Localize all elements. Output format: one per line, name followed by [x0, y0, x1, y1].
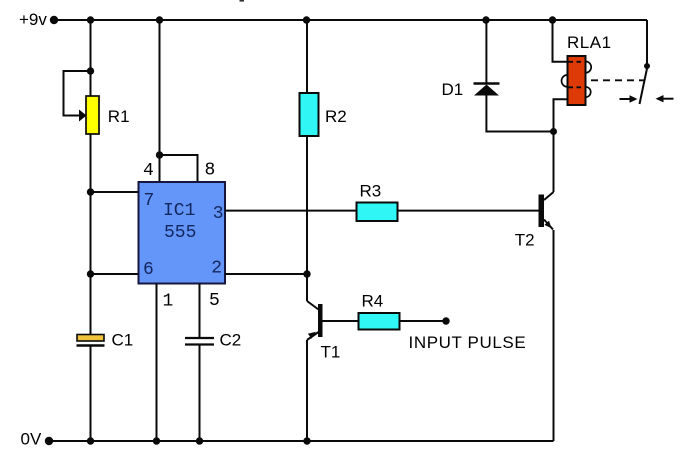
label R4 [362, 292, 384, 311]
wire relay coil bottom lead [554, 99, 568, 131]
svg-text:6: 6 [143, 260, 154, 280]
svg-text:C2: C2 [220, 330, 242, 349]
wiper arrow R1 [79, 110, 87, 122]
label R2 [325, 107, 347, 126]
relay contact arm [640, 69, 648, 105]
svg-text:IC1: IC1 [163, 201, 195, 221]
wire T2 collector drop [553, 132, 555, 193]
wire R4 to input terminal [400, 320, 447, 322]
pin 8 label [205, 160, 216, 180]
junction pin4/pin8 bracket [156, 151, 163, 158]
svg-text:3: 3 [213, 204, 224, 224]
wire pin3 to R3 [225, 210, 357, 212]
wire pin8 bracket [160, 155, 198, 182]
junction 0V rail pin1 [153, 437, 160, 444]
pin 5 label [209, 291, 220, 311]
wire pin6 to rail [91, 273, 139, 275]
svg-text:R4: R4 [362, 292, 384, 311]
wire pin2 to T1 branch [225, 273, 307, 275]
wire R2 branch upper [306, 20, 308, 93]
resistor R2 [300, 93, 319, 136]
label D1 [442, 80, 464, 99]
resistor R4 [359, 313, 400, 330]
junction top rail pin4 branch [156, 16, 163, 23]
junction D1 / relay / T2 collector [550, 128, 557, 135]
junction pin2 / R2 / T1 collector [303, 270, 310, 277]
svg-text:1: 1 [163, 292, 174, 312]
wire T2 emitter to 0V rail [553, 230, 555, 441]
wire right drop to relay contact pivot [646, 20, 648, 64]
svg-text:4: 4 [143, 161, 154, 181]
label C1 [112, 330, 134, 349]
wire pin4 branch vertical [159, 20, 161, 182]
wire 0V bottom rail [49, 440, 554, 442]
wire pin1 to 0V [156, 284, 158, 442]
wire R1 branch vertical [90, 20, 92, 335]
label T1 [321, 342, 341, 361]
dashed mechanical link relay to contact [591, 79, 644, 81]
svg-text:RLA1: RLA1 [567, 33, 612, 52]
resistor R3 [357, 203, 398, 222]
input pulse terminal dot [442, 317, 449, 324]
junction top rail R2 branch [303, 16, 310, 23]
resistor R1 [86, 96, 99, 134]
svg-text:8: 8 [205, 160, 216, 180]
pin 6 label [143, 260, 154, 280]
svg-text:0V: 0V [21, 430, 42, 449]
label IC1 [163, 201, 195, 221]
svg-text:R1: R1 [108, 107, 130, 126]
wire pin5 to C2 [199, 284, 201, 338]
svg-text:INPUT PULSE: INPUT PULSE [409, 333, 527, 352]
label C2 [220, 330, 242, 349]
label T2 [515, 231, 535, 250]
op-amp U1: IC1 555 timer body [139, 182, 226, 284]
diode D1 [474, 84, 500, 96]
junction 0V rail C2 [196, 437, 203, 444]
contact terminal arrow right [656, 95, 674, 102]
svg-text:5: 5 [209, 291, 220, 311]
label INPUT PULSE [409, 333, 527, 352]
0V terminal dot [45, 437, 53, 445]
junction top rail R1 branch [87, 16, 94, 23]
wire T1 emitter to 0V [306, 340, 308, 441]
pin 1 label [163, 292, 174, 312]
svg-text:+9v: +9v [19, 10, 47, 29]
junction top rail relay branch [549, 16, 556, 23]
node 0V label [21, 430, 42, 449]
junction pin6 wire [87, 270, 94, 277]
wire potentiometer bracket R1 [64, 71, 91, 116]
wire T1 base to R4 [323, 320, 359, 322]
junction R1 top bracket [87, 67, 94, 74]
wire +9v top rail [52, 19, 647, 21]
svg-text:R3: R3 [360, 182, 382, 201]
wire C2 to 0V rail [199, 346, 201, 442]
wire D1 to relay junction [486, 96, 553, 132]
junction top rail D1 branch [482, 16, 489, 23]
pin 7 label [144, 191, 155, 211]
label R3 [360, 182, 382, 201]
label R1 [108, 107, 130, 126]
svg-text:2: 2 [211, 259, 222, 279]
pin 4 label [143, 161, 154, 181]
wire pin7 to rail [91, 191, 139, 193]
pin 3 label [213, 204, 224, 224]
label RLA1 [567, 33, 612, 52]
svg-text:C1: C1 [112, 330, 134, 349]
wire D1 branch upper [485, 20, 487, 83]
junction 0V rail T1 emitter [303, 437, 310, 444]
pin 2 label [211, 259, 222, 279]
capacitor C1 [77, 335, 105, 346]
transistor T1 [307, 301, 323, 340]
svg-text:555: 555 [164, 223, 196, 243]
+9v terminal dot [50, 16, 58, 24]
relay contact pivot dot [644, 63, 650, 69]
svg-text:T1: T1 [321, 342, 341, 361]
wire R2 to T1 collector [306, 136, 308, 301]
wire C1 to 0V rail [90, 347, 92, 442]
junction 0V rail C1 [87, 437, 94, 444]
svg-text:R2: R2 [325, 107, 347, 126]
svg-text:7: 7 [144, 191, 155, 211]
wire relay coil top lead [553, 20, 568, 62]
contact terminal arrow left [620, 95, 638, 102]
node +9v label [19, 10, 47, 29]
wire R3 to T2 base [398, 210, 539, 212]
svg-text:T2: T2 [515, 231, 535, 250]
junction pin7 wire [87, 188, 94, 195]
capacitor C2 [185, 338, 214, 345]
stray page artifact top [240, 0, 245, 2]
relay coil RLA1 [562, 56, 592, 105]
svg-text:D1: D1 [442, 80, 464, 99]
transistor T2 [539, 192, 554, 230]
label 555 [164, 223, 196, 243]
